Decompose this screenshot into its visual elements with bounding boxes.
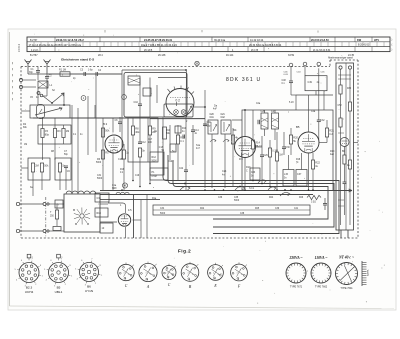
detector sub box right bbox=[296, 170, 307, 187]
enclosure inner line bbox=[296, 94, 333, 96]
wire bbox=[121, 70, 123, 160]
svg-text:8DK 361 U: 8DK 361 U bbox=[226, 77, 261, 83]
tube socket B6 radial ticks bbox=[75, 259, 102, 287]
svg-text:TYPE 7671: TYPE 7671 bbox=[290, 285, 303, 288]
connector view F details bbox=[232, 262, 247, 281]
connector view A outline bbox=[139, 263, 157, 281]
svg-text:1: 1 bbox=[101, 275, 102, 277]
wire bbox=[112, 118, 114, 133]
transformer view TYPE 7641 rim ticks bbox=[336, 263, 358, 285]
wire bbox=[139, 117, 141, 142]
antenna A2 bbox=[44, 60, 51, 75]
antenna A1 bbox=[25, 60, 32, 75]
power box tick 1 bbox=[338, 74, 351, 76]
svg-text:R26: R26 bbox=[299, 197, 304, 199]
svg-text:B 2767: B 2767 bbox=[30, 40, 38, 42]
svg-text:21 11-53 24 8-54: 21 11-53 24 8-54 bbox=[313, 50, 331, 52]
svg-text:TYPE 7662: TYPE 7662 bbox=[315, 285, 328, 288]
zigzag resistor 3.3ohm bbox=[307, 195, 321, 199]
svg-text:39.40 41a: 39.40 41a bbox=[214, 39, 226, 42]
terminal strip comb bbox=[362, 261, 367, 286]
wire bbox=[308, 153, 310, 190]
svg-text:3: 3 bbox=[85, 285, 86, 287]
resistor R32 bbox=[339, 118, 342, 127]
svg-text:1: 1 bbox=[42, 276, 43, 278]
wire marker 2 bbox=[122, 95, 127, 100]
svg-text:}: } bbox=[392, 48, 393, 52]
switch S1 wiper bbox=[52, 93, 64, 103]
wire bbox=[95, 74, 97, 152]
svg-text:2243-53 12-8-53 26.2: 2243-53 12-8-53 26.2 bbox=[56, 38, 84, 42]
tube socket B5 key square bbox=[57, 254, 61, 258]
capacitor C12 bbox=[138, 141, 142, 143]
svg-text:3: 3 bbox=[54, 286, 55, 288]
svg-text:26.6.53 24-8-53: 26.6.53 24-8-53 bbox=[311, 39, 329, 42]
wire bbox=[46, 84, 48, 96]
top scan marks bbox=[105, 30, 318, 33]
bus wire 118b bbox=[150, 118, 205, 120]
svg-text:B 2767: B 2767 bbox=[30, 54, 38, 57]
terminal P1 bbox=[339, 66, 342, 69]
wire bbox=[244, 123, 246, 137]
chassis dashed border right step bbox=[329, 60, 331, 67]
resistor R14a bbox=[122, 150, 125, 159]
power unit box bbox=[336, 63, 354, 230]
wire bbox=[119, 117, 121, 122]
transformer T1 winding bbox=[66, 191, 96, 194]
svg-text:3: 3 bbox=[168, 278, 169, 280]
svg-text:4: 4 bbox=[16, 279, 17, 281]
svg-text:B6: B6 bbox=[87, 285, 91, 289]
wire bbox=[347, 230, 349, 238]
wire bbox=[20, 230, 43, 232]
svg-text:R22: R22 bbox=[200, 208, 205, 210]
wave trap box 2 bbox=[221, 120, 231, 134]
wire bbox=[123, 144, 125, 150]
wire bbox=[318, 68, 320, 120]
svg-text:· ·: · · bbox=[167, 109, 170, 113]
power box tick 3 bbox=[338, 132, 344, 134]
svg-text:UY1N: UY1N bbox=[85, 289, 93, 293]
power box tick 2 bbox=[338, 78, 351, 80]
potentiometer P4 wiper bbox=[280, 192, 290, 196]
wire bbox=[139, 78, 141, 105]
transformer view TYPE 7662 rim ticks bbox=[311, 263, 331, 283]
bus line 4 (B+ rail) bbox=[100, 190, 352, 192]
title block column dividers row3 bbox=[40, 47, 372, 52]
svg-text:C1a: C1a bbox=[112, 185, 117, 187]
wire bbox=[32, 172, 34, 196]
resistor R21 bbox=[325, 128, 328, 137]
capacitor C32 bbox=[317, 119, 321, 121]
wire bbox=[193, 106, 205, 108]
transformer view TYPE 7641 outline bbox=[336, 263, 358, 285]
chassis dashed border top-right raised bbox=[330, 59, 358, 61]
svg-text:2M: 2M bbox=[35, 165, 38, 168]
capacitor C40 bbox=[203, 123, 207, 125]
svg-text:NRF: NRF bbox=[112, 188, 117, 190]
terminal LS1 bbox=[16, 202, 19, 205]
svg-text:1M: 1M bbox=[24, 144, 27, 146]
section divider dash-dot bbox=[45, 197, 47, 238]
scanner dust specks bbox=[23, 34, 385, 304]
tuning gang box bbox=[124, 73, 187, 118]
wave trap box 1 bbox=[208, 120, 218, 134]
svg-text:3 0 6 4: 3 0 6 4 bbox=[17, 44, 21, 52]
svg-text:C38: C38 bbox=[240, 213, 245, 215]
coil capsule bbox=[37, 105, 45, 119]
wire bbox=[122, 69, 186, 71]
terminal LS2 bbox=[16, 229, 19, 232]
svg-text:R1 1M: R1 1M bbox=[59, 68, 66, 71]
wire bbox=[264, 110, 266, 113]
svg-text:8: 8 bbox=[70, 265, 71, 267]
tube B7 output bbox=[118, 214, 130, 226]
resistor R31 bbox=[348, 102, 351, 111]
page left edge shadow bbox=[9, 32, 11, 306]
svg-text:3: 3 bbox=[215, 278, 216, 280]
connector view C outline bbox=[162, 266, 176, 280]
tube B5 (AF) bbox=[298, 132, 319, 153]
resistor R17 bbox=[268, 148, 271, 157]
title block column dividers row2 bbox=[34, 42, 384, 47]
terminal E2 bbox=[19, 85, 22, 88]
bus line 6 bbox=[100, 199, 160, 201]
wire bbox=[132, 118, 134, 126]
resistor R18 bbox=[275, 152, 278, 161]
svg-text:4nF: 4nF bbox=[213, 109, 218, 111]
wire bbox=[48, 73, 60, 75]
svg-text:C52: C52 bbox=[338, 105, 343, 107]
svg-text:C29: C29 bbox=[264, 155, 269, 157]
svg-text:Fig.2: Fig.2 bbox=[178, 249, 191, 254]
trimmer TC2 bbox=[181, 110, 186, 115]
wire bbox=[290, 128, 292, 135]
osc small box bbox=[175, 126, 181, 133]
chassis dashed border right bbox=[357, 60, 359, 238]
svg-text:26 178: 26 178 bbox=[251, 50, 259, 52]
capacitor C8 bbox=[118, 121, 122, 123]
wire bbox=[290, 67, 292, 81]
wire bbox=[125, 227, 127, 238]
B+ rail arrowhead bbox=[349, 189, 352, 192]
transformer view TYPE 7671 outline bbox=[286, 263, 306, 283]
trimmer TC1 bbox=[174, 110, 179, 115]
bus line 2 bbox=[168, 155, 334, 227]
svg-text:C41: C41 bbox=[210, 117, 215, 119]
wire bbox=[86, 73, 96, 75]
svg-text:B2.3: B2.3 bbox=[26, 286, 33, 290]
svg-text:2M: 2M bbox=[152, 131, 155, 134]
svg-text:26.138: 26.138 bbox=[158, 54, 166, 57]
connector view E outline bbox=[208, 265, 224, 281]
mid box R12 5000 bbox=[150, 152, 164, 175]
tube socket B5 radial ticks bbox=[44, 259, 72, 288]
resistor R30 bbox=[339, 85, 342, 94]
svg-text:C24: C24 bbox=[222, 170, 227, 173]
tuner inner can bbox=[128, 76, 140, 85]
svg-text:6: 6 bbox=[81, 260, 82, 262]
lamp LA1 bbox=[195, 61, 199, 65]
wire bbox=[37, 88, 39, 105]
bus wire 118 bbox=[33, 117, 150, 119]
connector view C outline bbox=[118, 264, 134, 280]
svg-text:1: 1 bbox=[71, 276, 72, 278]
oscillator coil box bbox=[38, 125, 71, 144]
svg-text:R13: R13 bbox=[166, 130, 171, 132]
svg-text:B5: B5 bbox=[57, 286, 61, 290]
grid box bbox=[95, 208, 108, 217]
wire bbox=[156, 85, 158, 103]
wire bbox=[315, 91, 317, 95]
capacitor C18h bbox=[182, 135, 184, 139]
capacitor C28 bbox=[257, 120, 259, 125]
svg-text:2: 2 bbox=[127, 270, 128, 272]
svg-text:UCH4: UCH4 bbox=[25, 290, 34, 294]
svg-text:R19: R19 bbox=[97, 212, 102, 215]
tube B4 bbox=[235, 137, 256, 158]
wire bbox=[232, 119, 242, 121]
wire bbox=[261, 136, 263, 155]
svg-text:2: 2 bbox=[191, 270, 192, 272]
wire bbox=[288, 155, 290, 170]
margin punch marks bbox=[12, 62, 14, 100]
svg-text:5: 5 bbox=[75, 268, 76, 270]
wire bbox=[283, 132, 285, 147]
wire bbox=[244, 158, 246, 191]
capacitor C14 bbox=[191, 129, 195, 131]
node K2 bbox=[42, 117, 44, 119]
wire bbox=[354, 142, 359, 144]
svg-text:5000: 5000 bbox=[234, 200, 240, 202]
svg-text:3: 3 bbox=[238, 279, 239, 281]
power unit inner rail bbox=[345, 63, 347, 230]
oscillator sub box bbox=[164, 104, 193, 117]
svg-text:7: 7 bbox=[61, 259, 62, 261]
wire bbox=[21, 167, 28, 169]
svg-text:220VA ~: 220VA ~ bbox=[289, 256, 304, 260]
svg-text:S1a: S1a bbox=[196, 145, 201, 147]
wire bbox=[112, 152, 114, 191]
svg-text:C19: C19 bbox=[135, 175, 140, 177]
svg-text:C15: C15 bbox=[118, 158, 123, 161]
wire bbox=[162, 160, 164, 177]
wire bbox=[71, 105, 73, 192]
wire bbox=[304, 66, 306, 76]
connector view B details bbox=[183, 262, 199, 281]
wire bbox=[140, 200, 142, 238]
trap 1 innards bbox=[210, 122, 212, 132]
resistor R11 bbox=[176, 135, 179, 144]
resistor R9 bbox=[148, 126, 151, 135]
tube socket B6 outline bbox=[80, 263, 99, 282]
title block row line 2 bbox=[27, 46, 390, 48]
svg-text:5000: 5000 bbox=[96, 162, 102, 164]
svg-text:5000: 5000 bbox=[160, 213, 166, 215]
svg-text:UBL1: UBL1 bbox=[55, 290, 63, 294]
chassis dashed border top bbox=[21, 66, 330, 68]
tube socket B2.3 radial ticks bbox=[15, 259, 43, 288]
wire bbox=[149, 78, 151, 118]
wire bbox=[133, 219, 142, 221]
chassis dashed border bottom bbox=[21, 237, 358, 239]
resistor R15 bbox=[231, 135, 234, 144]
wire bbox=[102, 118, 104, 190]
wire bbox=[344, 147, 346, 156]
tube socket B2.3 pins bbox=[21, 265, 36, 280]
wire bbox=[349, 69, 351, 102]
resistor R25 bbox=[55, 210, 58, 219]
tube socket B2.3 key lead bbox=[28, 258, 30, 260]
wire bbox=[326, 120, 328, 128]
choke bumps on bus bbox=[116, 192, 129, 194]
capacitor C42s bbox=[323, 203, 327, 205]
resistor R13 bbox=[101, 150, 104, 159]
svg-text:2: 2 bbox=[216, 270, 217, 272]
wire bbox=[291, 94, 296, 96]
svg-text:C35: C35 bbox=[234, 197, 239, 199]
svg-text:0.5M: 0.5M bbox=[152, 176, 157, 178]
svg-text:4: 4 bbox=[171, 274, 172, 276]
bus line 3 bbox=[173, 160, 328, 219]
wire bbox=[63, 93, 65, 105]
svg-text:2: 2 bbox=[35, 284, 36, 286]
svg-text:2: 2 bbox=[65, 284, 66, 286]
svg-text:2: 2 bbox=[170, 270, 171, 272]
wire bbox=[340, 230, 342, 238]
detector sub box left bbox=[283, 170, 294, 187]
switch arrow in osc box bbox=[186, 106, 192, 116]
IF can T6 bbox=[272, 113, 279, 129]
svg-text:C10: C10 bbox=[134, 101, 139, 104]
wire bbox=[65, 168, 67, 190]
wire bbox=[54, 118, 56, 129]
connector view E details bbox=[209, 263, 223, 281]
wire bbox=[269, 140, 271, 148]
coupling box right bbox=[55, 158, 71, 180]
svg-text:R24: R24 bbox=[269, 197, 274, 199]
svg-text:24.25 26.27 28 29 30.31: 24.25 26.27 28 29 30.31 bbox=[144, 38, 173, 42]
switch S4 wiper bbox=[268, 187, 276, 190]
svg-text:4: 4 bbox=[192, 274, 193, 276]
potentiometer P3 wiper bbox=[235, 186, 245, 190]
wire bbox=[42, 118, 44, 129]
tube socket B2.3 outline bbox=[19, 263, 39, 283]
svg-text:5000: 5000 bbox=[152, 160, 158, 162]
switch S2 wiper bbox=[35, 108, 62, 115]
capacitor C2 bbox=[45, 76, 49, 78]
svg-text:R30: R30 bbox=[347, 88, 352, 90]
oscillator tube B3 envelope bbox=[166, 89, 194, 117]
svg-text:4: 4 bbox=[128, 274, 129, 276]
connector view B outline bbox=[181, 264, 199, 282]
capacitor C30 bbox=[282, 146, 286, 148]
wire bbox=[100, 203, 108, 205]
title block row line 1 bbox=[27, 41, 390, 43]
anode box bbox=[100, 223, 113, 233]
svg-text:7: 7 bbox=[32, 259, 33, 261]
svg-text:3.3Ω: 3.3Ω bbox=[311, 202, 316, 204]
svg-text:1M: 1M bbox=[66, 130, 69, 133]
wire bbox=[177, 125, 179, 135]
svg-text:1: 1 bbox=[146, 273, 147, 275]
wire bbox=[290, 83, 292, 95]
svg-text:KW: KW bbox=[357, 39, 362, 42]
page edge bracket marks bbox=[392, 38, 393, 52]
svg-text:26 13 B: 26 13 B bbox=[144, 49, 153, 52]
wire bbox=[224, 134, 226, 188]
svg-text:33.59: 33.59 bbox=[288, 54, 295, 57]
coil capsule tick bbox=[40, 109, 43, 113]
terminal TA1 bbox=[289, 63, 293, 67]
resistor R3 bbox=[53, 129, 56, 138]
wire bbox=[204, 90, 206, 188]
input transformer small box bbox=[55, 200, 63, 208]
svg-text:1: 1 bbox=[167, 273, 168, 275]
svg-text:C30: C30 bbox=[286, 147, 291, 149]
transformer view TYPE 7662 outline bbox=[311, 263, 331, 283]
svg-text:C40: C40 bbox=[207, 122, 212, 124]
tube socket B6 pins bbox=[82, 265, 96, 279]
wire bbox=[185, 88, 187, 165]
wire bbox=[63, 125, 65, 129]
fuse F1 bbox=[53, 227, 61, 231]
connector view C details bbox=[164, 264, 176, 280]
switch S3 wiper bbox=[258, 180, 266, 183]
svg-text:C31: C31 bbox=[97, 197, 102, 200]
terminal E1 bbox=[19, 78, 22, 81]
svg-text:0 2: 0 2 bbox=[176, 99, 181, 103]
svg-text:1M: 1M bbox=[279, 154, 282, 157]
chassis strip box bbox=[153, 205, 310, 215]
title block column dividers row1 bbox=[55, 37, 372, 42]
resistor R6 bbox=[58, 163, 61, 172]
switch wafer dots bbox=[75, 223, 76, 224]
svg-text:C42: C42 bbox=[221, 117, 226, 119]
wire bbox=[23, 79, 36, 81]
svg-text:C17: C17 bbox=[148, 139, 153, 141]
pickup box bbox=[305, 76, 327, 91]
svg-text:R12: R12 bbox=[152, 156, 157, 159]
svg-text:80p: 80p bbox=[45, 133, 50, 136]
wire bbox=[308, 95, 310, 132]
svg-text:2: 2 bbox=[240, 270, 241, 272]
resistor R4 bbox=[31, 163, 34, 172]
svg-text:5.18: 5.18 bbox=[289, 102, 294, 104]
wire bbox=[319, 142, 327, 144]
svg-text:1: 1 bbox=[124, 273, 125, 275]
svg-text:C4a: C4a bbox=[311, 111, 316, 113]
svg-text:L15: L15 bbox=[284, 173, 289, 176]
capacitor C6 bbox=[64, 165, 68, 167]
osc box C18 bbox=[170, 144, 176, 152]
svg-text:C34: C34 bbox=[160, 208, 165, 210]
svg-text:26 34 8.34 2a 34.86 8.6 B 04: 26 34 8.34 2a 34.86 8.6 B 04 bbox=[249, 44, 282, 47]
wire bbox=[100, 221, 117, 223]
wire bbox=[295, 95, 297, 110]
page bottom edge shadow bbox=[10, 306, 395, 309]
resistor R22 bbox=[311, 160, 314, 169]
svg-text:8: 8 bbox=[100, 265, 101, 267]
wire bbox=[37, 67, 39, 71]
svg-text:110VA ~: 110VA ~ bbox=[315, 256, 329, 260]
IF block inner divider bbox=[147, 118, 149, 162]
wire bbox=[176, 102, 178, 106]
coil L1 bbox=[38, 81, 48, 88]
wire bbox=[41, 172, 43, 190]
tube socket B5 pins bbox=[51, 265, 66, 280]
svg-text:0.2: 0.2 bbox=[329, 133, 333, 136]
